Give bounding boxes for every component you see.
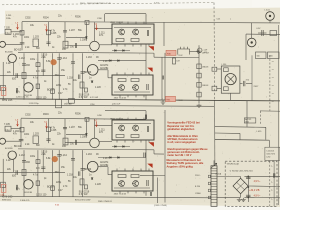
wire vertical (half b) (85, 119, 87, 138)
wire (140, 174, 165, 176)
resistor (half b) (80, 179, 84, 185)
module resistor 1 (half a) (118, 79, 126, 82)
wire H140 (215, 139, 269, 142)
wire vertical (half b) (64, 119, 66, 145)
resistor (half b) (22, 169, 26, 175)
input network box (half a) (5, 29, 11, 34)
module pin top (half a) (140, 73, 142, 76)
module resistor 2 (half a) (131, 79, 139, 82)
lamp La1 top of chain (197, 48, 202, 53)
svg-text:1.205: 1.205 (51, 130, 58, 132)
module capacitor (half a) (147, 84, 148, 90)
resistor (half b) (51, 186, 55, 191)
resistor box (half b) (63, 138, 68, 145)
svg-text:C655 7070: C655 7070 (266, 154, 275, 156)
top-right white corner (252, 0, 280, 7)
wire vertical x73 (half b) (72, 150, 74, 197)
module pin top (half b) (135, 118, 137, 120)
component (half a) (1, 85, 6, 90)
wire above module (145, 14, 147, 24)
wire H4 (154, 56, 199, 58)
module pin (half b) (132, 140, 134, 143)
module resistor 2 (half a) (131, 39, 139, 42)
svg-text:o–: o– (271, 182, 273, 184)
wire vertical x24 (half a) (23, 53, 25, 100)
scan shading (0, 10, 90, 60)
wire row boundary H3 (18, 51, 154, 54)
svg-text:100n: 100n (24, 37, 30, 39)
wire below module (half b) (145, 191, 147, 196)
wire (half a) (98, 69, 108, 71)
svg-text:4,9 V~: 4,9 V~ (254, 196, 261, 198)
red test-voltage arrow (half b) (17, 121, 19, 126)
resistor (half b) (36, 181, 40, 186)
svg-text:1N4003: 1N4003 (202, 67, 208, 69)
red test-voltage arrow (half b) (96, 121, 98, 126)
diode AC187 (half b) (115, 146, 117, 148)
wire vertical x157 lower (157, 178, 159, 204)
component (half b) (1, 182, 6, 187)
wire (104, 14, 106, 22)
module transistor 1 (half a) (119, 85, 125, 91)
resistor (half b) (20, 127, 24, 132)
junction component (half a) (85, 21, 89, 25)
red test-voltage arrow (half a) (96, 25, 98, 30)
svg-text:37.4: 37.4 (246, 79, 250, 81)
wire (239, 133, 241, 140)
mains connector pin 2 (208, 182, 210, 185)
capacitor on vert (half b) (71, 159, 75, 160)
resistor (half a) (36, 84, 40, 89)
module resistor 1 (half b) (118, 175, 126, 178)
svg-text:1.201: 1.201 (6, 15, 12, 17)
capacitor (half b) (79, 171, 80, 176)
capacitor (half a) (75, 43, 76, 48)
wire vertical x82.5 (half b) (82, 150, 84, 197)
wire (265, 127, 267, 140)
svg-text:R304: R304 (43, 17, 49, 19)
svg-text:4,9 V~: 4,9 V~ (254, 181, 261, 183)
junction component (half b) (85, 117, 89, 121)
wire vertical x247 (246, 101, 248, 127)
svg-text:0.47: 0.47 (58, 93, 63, 95)
svg-text:KHM 1/05: KHM 1/05 (2, 200, 12, 202)
svg-text:ELN 2219: ELN 2219 (79, 191, 90, 193)
capacitor (half a) (16, 73, 17, 78)
svg-text:1.216: 1.216 (86, 154, 93, 156)
resistor (half a) (36, 63, 40, 67)
svg-text:0.22 / 4W: 0.22 / 4W (90, 97, 98, 99)
svg-text:BC413: BC413 (14, 146, 22, 148)
transistor T205 power driver (half b) (87, 161, 98, 172)
dashed right column lower (269, 161, 271, 206)
wire (half b) (12, 159, 14, 172)
module pin top (half b) (119, 118, 121, 120)
left white margin (0, 0, 5, 34)
module pin top (half b) (132, 169, 134, 172)
svg-text:0.47: 0.47 (58, 190, 63, 192)
wire (251, 23, 253, 38)
svg-text:BC327: BC327 (47, 90, 55, 92)
wire (240, 177, 242, 179)
red test-voltage arrow (half a) (17, 24, 19, 29)
wire above module (145, 111, 147, 120)
module pin (half b) (124, 140, 126, 143)
resistor (half a) (22, 73, 26, 79)
capacitor (half a) (16, 88, 17, 93)
svg-text:1200: 1200 (269, 55, 273, 57)
svg-text:7.105: 7.105 (4, 124, 11, 126)
capacitor near module3 (145, 115, 146, 120)
output label box (244, 118, 256, 123)
svg-text:0.1u: 0.1u (5, 33, 10, 35)
module pin bottom (half b) (143, 191, 145, 193)
diode (half b) (118, 157, 120, 159)
dashed chassis boundary vertical (213, 3, 216, 100)
ground near L09 (196, 50, 201, 54)
wire vertical x37.9 (half b) (37, 150, 39, 197)
svg-text:1.207: 1.207 (69, 127, 76, 129)
svg-text:1.215 120: 1.215 120 (36, 194, 47, 196)
wire main bus H1 (22, 22, 280, 23)
hybrid output module box lower (half a) (112, 75, 153, 95)
wire vertical x82.5 (half a) (82, 53, 84, 100)
svg-text:AC188k: AC188k (100, 164, 109, 167)
svg-text:7.103: 7.103 (178, 100, 184, 102)
transistor T101 (half b) (0, 138, 6, 144)
bridge rectifier GL1 (233, 178, 248, 193)
svg-text:1.306 4.7k: 1.306 4.7k (20, 200, 29, 202)
capacitor top right (262, 30, 263, 36)
dashed chassis boundary top (2, 3, 214, 5)
wire vertical x199 (198, 45, 200, 103)
diode rectifier D1 on x199 (197, 64, 201, 69)
svg-text:L250: L250 (266, 157, 270, 159)
wire between modules (half b) (145, 140, 147, 171)
wire +32V rail (248, 185, 280, 188)
module pin top (half b) (124, 169, 126, 172)
module pin bottom (half b) (119, 191, 121, 193)
resistor (half a) (85, 88, 88, 92)
module transistor 2 (half b) (133, 181, 139, 187)
resistor in motor box 2 (224, 87, 229, 91)
capacitor C1.2 (half b) (19, 139, 24, 140)
capacitor on vert (half b) (81, 169, 85, 170)
hybrid output module box upper (half a) (112, 24, 154, 44)
red marker triangle upper (half a) (149, 46, 154, 50)
wire (268, 140, 270, 147)
motor symbol M (225, 74, 236, 85)
module pin (half a) (148, 44, 150, 47)
connector pin upper (212, 67, 217, 71)
wire vertical x252 (251, 55, 253, 100)
svg-text:C302: C302 (25, 114, 31, 116)
svg-text:5.01: 5.01 (217, 19, 221, 21)
wire vertical x52.5 (half b) (52, 150, 54, 197)
module pin top (half a) (127, 22, 129, 24)
module pin top (half a) (116, 73, 118, 76)
input network box (half b) (5, 126, 11, 131)
wire long vertical x165 lower (164, 110, 166, 203)
wire (half a) (65, 45, 90, 47)
terminal box 1 (256, 52, 267, 59)
resistor (half a) (47, 30, 51, 35)
transistor T205 power driver (half a) (87, 65, 98, 76)
svg-text:–o: –o (272, 101, 274, 103)
orange adjustment dot (half a) (51, 59, 57, 65)
wire transformer to bridge bottom (217, 196, 241, 198)
svg-text:U 700 Bal C655-7070 2101: U 700 Bal C655-7070 2101 (230, 171, 253, 173)
diode rectifier D3 on x199 (197, 82, 201, 87)
resistor box (half a) (63, 41, 68, 48)
resistor (half a) (80, 82, 84, 88)
capacitor right column (274, 173, 275, 178)
wire relay to diode chain (190, 51, 200, 53)
resistor box (half a) (33, 39, 39, 47)
svg-text:–o: –o (272, 69, 274, 71)
module resistor 1 (half b) (116, 135, 124, 138)
wire (half b) (108, 174, 112, 176)
module pin top (half b) (127, 118, 129, 120)
wire vertical x59.2 (half a) (58, 53, 60, 100)
transistor T201 (half b) (8, 151, 16, 159)
capacitor mid column (162, 76, 163, 80)
module inner bus (half a) (114, 91, 150, 93)
svg-text:L09: L09 (177, 61, 180, 63)
svg-text:1.218: 1.218 (67, 174, 74, 176)
mains connector pin 4 (208, 196, 210, 199)
ground below x199 (197, 104, 202, 108)
hybrid output module box upper (half b) (112, 120, 154, 140)
wire mid horizontal (half a) (0, 74, 65, 76)
capacitor (half a) (41, 70, 45, 71)
svg-text:1.212: 1.212 (19, 58, 26, 60)
wire vertical (half a) (94, 22, 96, 41)
wire vertical (half b) (48, 119, 50, 143)
svg-text:1.205: 1.205 (51, 33, 58, 35)
svg-text:560: 560 (257, 55, 260, 57)
module resistor 2 (half b) (131, 175, 139, 178)
svg-text:1.218: 1.218 (67, 78, 74, 80)
wire upper secondary rail (244, 175, 280, 177)
svg-text:1.217: 1.217 (103, 158, 110, 160)
svg-text:100n: 100n (24, 134, 30, 136)
transistor T104 driver (half a) (90, 41, 100, 51)
capacitor (half b) (41, 167, 45, 168)
svg-text:1.209 220p: 1.209 220p (29, 103, 40, 105)
module capacitor (half a) (147, 30, 148, 36)
capacitor on vert (half a) (63, 31, 67, 32)
svg-text:100u: 100u (30, 156, 36, 158)
motor box (221, 66, 240, 93)
resistor (half a) (20, 30, 24, 35)
svg-text:0.5 / 4W: 0.5 / 4W (79, 194, 88, 196)
svg-text:1.220: 1.220 (95, 87, 102, 89)
svg-text:250mA: 250mA (215, 172, 221, 175)
wire vertical x73 (half a) (72, 53, 74, 100)
wire bottom rail H8 (0, 196, 210, 198)
ground bridge 1 (237, 198, 242, 202)
hybrid output module box lower (half b) (112, 171, 153, 191)
module pin top (half b) (116, 169, 118, 172)
wire (half b) (66, 134, 86, 136)
wire to module (half a) (99, 44, 112, 46)
svg-text:BC413B: BC413B (25, 192, 33, 194)
svg-text:KHM 1/05: KHM 1/05 (2, 197, 13, 199)
capacitor on vert (half b) (57, 155, 61, 156)
component on rail (69, 98, 75, 103)
wire main bus H1b (21, 118, 146, 119)
resistor (half b) (47, 127, 51, 132)
svg-text:1.208: 1.208 (80, 40, 87, 42)
module pin bottom (half b) (127, 191, 129, 193)
wire H2 top (105, 13, 146, 15)
module pin top (half a) (135, 22, 137, 24)
capacitor (half b) (75, 140, 76, 145)
module resistor 1 (half a) (116, 39, 124, 42)
wire (half b) (98, 166, 108, 168)
transistor T101 (half a) (0, 41, 6, 47)
module pin top (half b) (148, 169, 150, 172)
resistor (half b) (85, 185, 88, 189)
module pin top (half b) (143, 118, 145, 120)
red marker triangle lower (half b) (147, 164, 152, 168)
diode AC188 (half a) (123, 50, 125, 52)
svg-text:ELN 2219: ELN 2219 (79, 95, 90, 97)
svg-text:AC188k: AC188k (100, 67, 109, 70)
svg-text:4.7u: 4.7u (33, 174, 38, 176)
svg-text:L 590: L 590 (222, 64, 227, 66)
svg-text:ELN 2219 0.5/4W: ELN 2219 0.5/4W (75, 199, 90, 201)
svg-text:2N05 / 2N08 03: 2N05 / 2N08 03 (98, 201, 112, 203)
salmon stamp box upper (166, 50, 176, 55)
module transistor 2 (half b) (133, 125, 139, 131)
wire (half b) (6, 140, 22, 142)
svg-text:1.214: 1.214 (61, 155, 68, 157)
svg-text:BD433: BD433 (84, 72, 92, 74)
module pin (half b) (116, 140, 118, 143)
module pin (half b) (148, 140, 150, 143)
svg-text:(2N05 / 2N08): (2N05 / 2N08) (154, 205, 167, 207)
paper background (0, 0, 280, 210)
wire vertical left (half a) (2, 62, 4, 100)
pink highlight box (half a) (1, 88, 6, 96)
svg-text:–o: –o (272, 85, 274, 87)
transistor T201 (half a) (8, 54, 16, 62)
capacitor mid lower (144, 153, 145, 158)
svg-text:meter bei UB = 32 V: meter bei UB = 32 V (167, 153, 192, 157)
capacitor on vert (half a) (81, 72, 85, 73)
capacitor on vert (half a) (22, 64, 26, 65)
capacitor on vert (half b) (22, 161, 26, 162)
svg-text:7.105: 7.105 (4, 27, 11, 29)
wire right edge vertical (278, 25, 280, 205)
capacitor mid lower 2 (150, 192, 151, 196)
wire (260, 110, 280, 112)
diode (half a) (118, 60, 120, 62)
module inner bus (half b) (114, 187, 150, 189)
module pin bottom (half a) (127, 95, 129, 97)
wire motor down (230, 93, 232, 100)
resistor box (half b) (33, 136, 39, 144)
wire (half a) (108, 77, 112, 79)
wire vertical x165 (164, 53, 166, 100)
red marker triangle upper (half b) (149, 142, 154, 146)
wire bias diodes (half a) (112, 50, 130, 52)
diode AC188 (half b) (123, 146, 125, 148)
wire vertical (half a) (48, 22, 50, 46)
wire below module (half a) (145, 95, 147, 100)
wire box left edge right (245, 34, 247, 60)
mains connector pin 3 (208, 189, 210, 192)
svg-text:C302: C302 (25, 18, 31, 20)
module resistor 2 (half b) (131, 135, 139, 138)
wire (half a) (66, 37, 86, 39)
wire (half b) (65, 141, 90, 143)
svg-text:5.24 2101: 5.24 2101 (266, 151, 274, 153)
wire box top edge right (246, 33, 280, 35)
fuse box on rails (56, 99, 62, 107)
capacitor (half b) (46, 139, 50, 140)
svg-text:C351 1uF: C351 1uF (112, 104, 121, 106)
svg-text:7.102: 7.102 (178, 55, 184, 57)
diode vertical (half a) (91, 81, 93, 83)
svg-text:BC413B: BC413B (5, 148, 13, 150)
relay coil K1 (178, 47, 190, 55)
wire long supply rail H5 (0, 99, 280, 101)
wire (half a) (11, 31, 22, 33)
wire between modules (half a) (145, 44, 147, 75)
module pin top (half a) (132, 73, 134, 76)
wire transformer to bridge top (217, 176, 241, 178)
wire vertical x37.9 (half a) (37, 53, 39, 100)
connector pin lower (212, 86, 217, 91)
resistor in motor box (224, 68, 229, 72)
wire row boundary H3b (18, 148, 154, 151)
capacitor (half b) (16, 185, 17, 190)
svg-text:AC187k: AC187k (100, 64, 109, 67)
pink highlight box (half b) (1, 184, 6, 192)
svg-text:BC413: BC413 (14, 49, 22, 51)
diode rectifier D4 on x199 (197, 92, 201, 97)
svg-text:C350: C350 (90, 104, 95, 106)
wire (258, 32, 267, 34)
svg-text:2N05 7.140 03: 2N05 7.140 03 (114, 193, 126, 195)
wire vertical left (half b) (2, 159, 4, 197)
svg-text:0.5 / 4W: 0.5 / 4W (79, 97, 88, 99)
svg-text:ginalteilen abgleichen: ginalteilen abgleichen (167, 127, 195, 131)
wire H127 (215, 126, 266, 129)
capacitor elco 1 (246, 177, 250, 178)
wire to module pin2 (half b) (95, 125, 113, 127)
svg-text:+32,4 V/B: +32,4 V/B (249, 190, 260, 192)
salmon stamp box lower (166, 96, 176, 101)
wire diode chain (half a) (98, 60, 146, 62)
svg-text:220p: 220p (56, 85, 62, 87)
scan speckle texture (90, 40, 93, 43)
transformer winding bar (211, 166, 217, 207)
wire to module pin2 (half a) (95, 28, 113, 30)
module capacitor (half b) (147, 180, 148, 186)
transformer TR1 (210, 163, 217, 206)
svg-text:o–: o– (271, 166, 273, 168)
svg-text:1.203: 1.203 (33, 37, 40, 39)
svg-text:L 5.01: L 5.01 (265, 10, 270, 12)
resistor (half b) (36, 160, 40, 164)
module pin bottom (half a) (135, 95, 137, 97)
wire (half a) (12, 63, 14, 76)
module pin bottom (half a) (143, 95, 145, 97)
